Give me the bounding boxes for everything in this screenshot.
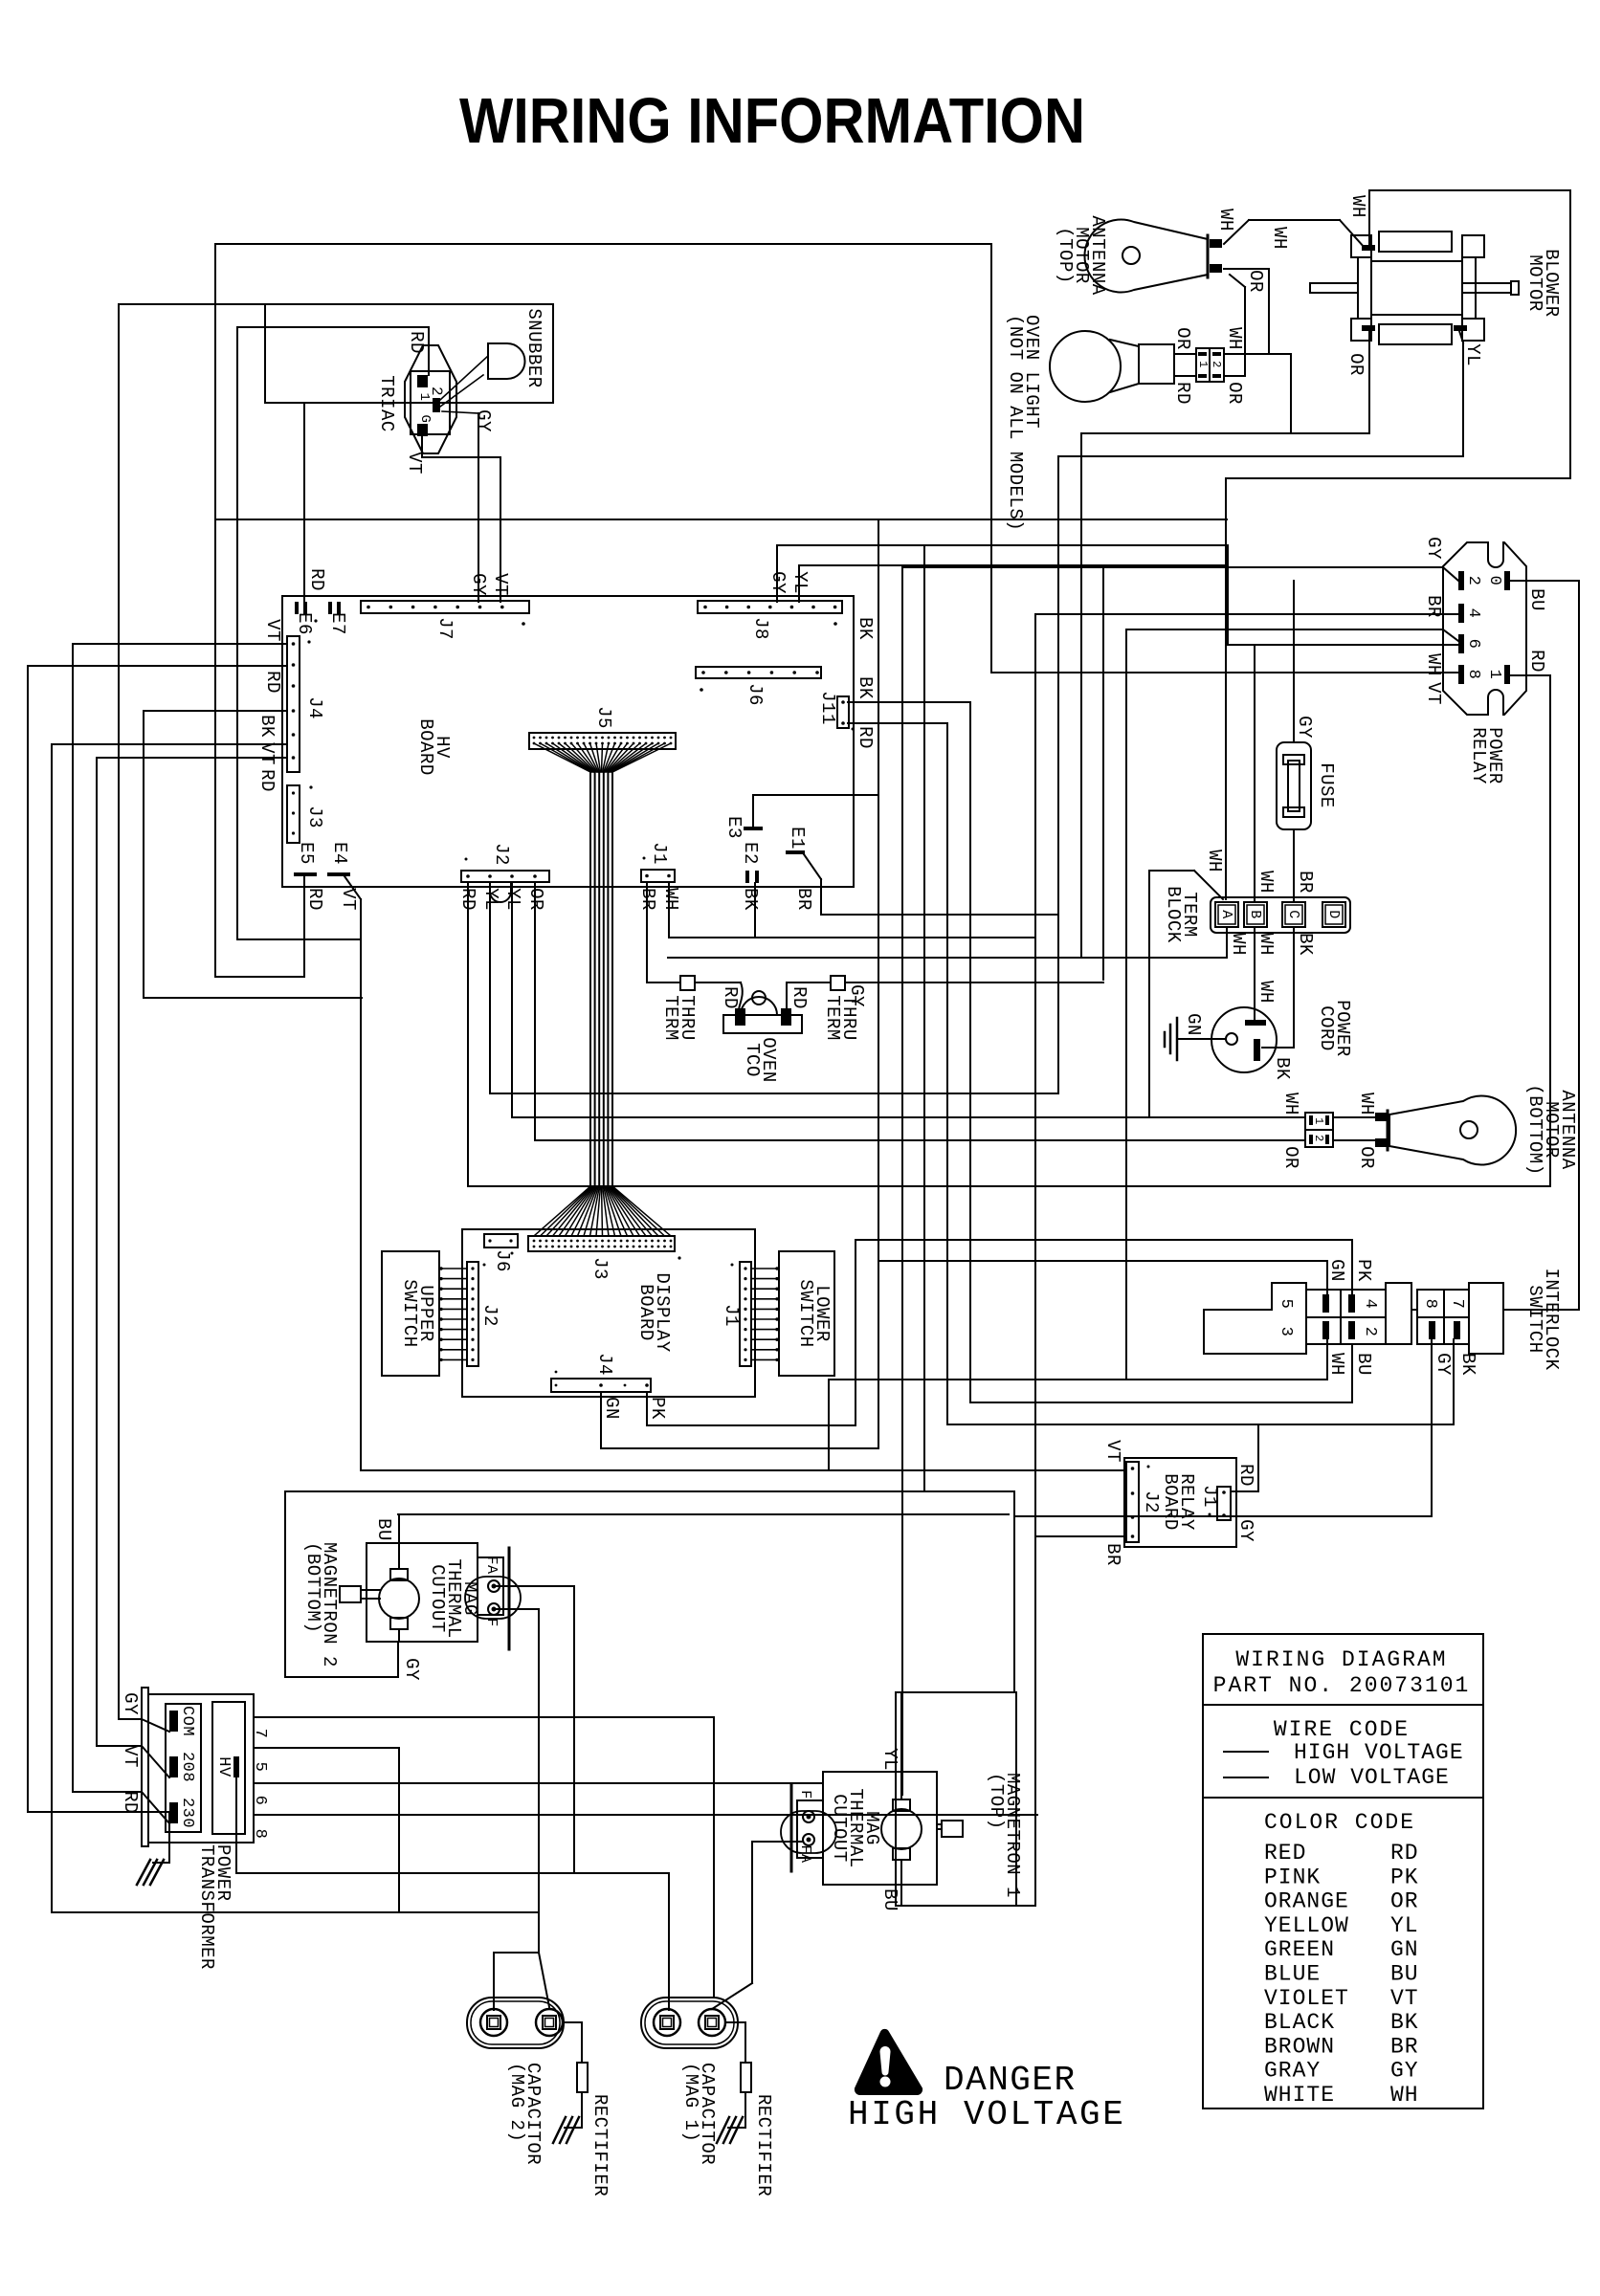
svg-text:CUTOUT: CUTOUT — [427, 1564, 448, 1632]
svg-text:GN: GN — [1183, 1013, 1204, 1036]
svg-text:VT: VT — [1102, 1440, 1123, 1463]
svg-text:BR: BR — [1102, 1543, 1123, 1566]
svg-text:OR: OR — [1224, 382, 1245, 405]
svg-text:E2: E2 — [740, 842, 761, 865]
svg-text:OR: OR — [1172, 327, 1193, 350]
svg-text:GY: GY — [767, 571, 789, 594]
svg-text:RD: RD — [720, 986, 741, 1009]
svg-text:GREEN: GREEN — [1264, 1937, 1335, 1962]
svg-text:BLUE: BLUE — [1264, 1962, 1321, 1987]
svg-text:RD: RD — [256, 769, 278, 792]
svg-text:TCO: TCO — [742, 1043, 763, 1077]
svg-text:FA: FA — [797, 1844, 813, 1863]
svg-text:OR: OR — [1390, 1889, 1419, 1914]
svg-text:RED: RED — [1264, 1841, 1306, 1865]
svg-text:PINK: PINK — [1264, 1865, 1321, 1889]
svg-text:(TOP): (TOP) — [1055, 227, 1076, 284]
svg-text:RD: RD — [306, 568, 327, 591]
svg-text:WH: WH — [1204, 850, 1225, 872]
svg-text:OR: OR — [1345, 353, 1367, 376]
svg-text:TERM: TERM — [822, 995, 843, 1041]
svg-text:PK: PK — [647, 1397, 668, 1420]
svg-text:J11: J11 — [817, 691, 838, 725]
svg-text:CORD: CORD — [1316, 1005, 1337, 1051]
svg-text:J5: J5 — [593, 706, 614, 729]
svg-text:BK: BK — [1272, 1057, 1293, 1080]
svg-text:BLOCK: BLOCK — [1163, 886, 1184, 943]
svg-text:2: 2 — [428, 386, 445, 396]
svg-text:J1: J1 — [721, 1304, 742, 1327]
svg-text:WIRING DIAGRAM: WIRING DIAGRAM — [1235, 1647, 1447, 1672]
svg-text:LOW VOLTAGE: LOW VOLTAGE — [1294, 1765, 1450, 1790]
svg-text:(BOTTOM): (BOTTOM) — [1524, 1084, 1545, 1175]
svg-text:J3: J3 — [589, 1257, 611, 1280]
svg-text:YL: YL — [789, 571, 811, 594]
svg-text:WH: WH — [1215, 209, 1236, 232]
svg-text:BK: BK — [1390, 2010, 1419, 2035]
svg-text:ORANGE: ORANGE — [1264, 1889, 1349, 1914]
svg-text:WHITE: WHITE — [1264, 2083, 1335, 2108]
svg-text:J4: J4 — [304, 696, 325, 719]
svg-text:BK: BK — [740, 888, 761, 911]
svg-text:J2: J2 — [479, 1304, 500, 1327]
svg-text:WH: WH — [1224, 327, 1245, 350]
svg-text:WH: WH — [1256, 871, 1277, 894]
svg-text:BOARD: BOARD — [1160, 1473, 1181, 1531]
svg-text:6: 6 — [1464, 639, 1482, 650]
svg-text:VT: VT — [120, 1745, 141, 1768]
svg-text:J8: J8 — [750, 617, 771, 640]
svg-text:GN: GN — [1326, 1259, 1347, 1282]
svg-text:E1: E1 — [787, 827, 808, 850]
svg-text:MOTOR: MOTOR — [1524, 254, 1545, 312]
svg-text:C: C — [1285, 910, 1301, 919]
svg-text:BOARD: BOARD — [415, 718, 436, 776]
svg-text:WH: WH — [1347, 195, 1368, 218]
svg-text:SWITCH: SWITCH — [795, 1279, 816, 1347]
svg-text:6: 6 — [251, 1796, 269, 1806]
svg-text:TRANSFORMER: TRANSFORMER — [196, 1844, 217, 1970]
svg-text:RD: RD — [406, 331, 427, 354]
svg-text:GRAY: GRAY — [1264, 2059, 1321, 2084]
svg-text:BK: BK — [1457, 1353, 1478, 1376]
svg-text:WH: WH — [1228, 933, 1249, 956]
svg-text:BU: BU — [1526, 588, 1547, 611]
svg-text:7: 7 — [1448, 1299, 1466, 1310]
svg-text:OR: OR — [1356, 1146, 1377, 1169]
svg-text:RD: RD — [1390, 1841, 1419, 1865]
svg-text:E5: E5 — [296, 842, 317, 865]
svg-text:WH: WH — [1326, 1353, 1347, 1376]
svg-text:PK: PK — [1390, 1865, 1419, 1889]
svg-text:D: D — [1325, 910, 1342, 919]
svg-text:E6: E6 — [294, 612, 315, 635]
svg-text:GY: GY — [846, 984, 867, 1007]
svg-text:1: 1 — [1196, 361, 1210, 368]
svg-text:BK: BK — [855, 617, 876, 640]
svg-text:BK: BK — [256, 715, 278, 738]
svg-text:(BOTTOM): (BOTTOM) — [302, 1542, 323, 1633]
svg-text:TERM: TERM — [660, 995, 681, 1041]
svg-text:E3: E3 — [723, 816, 744, 839]
svg-text:F: F — [797, 1790, 813, 1799]
svg-text:VT: VT — [490, 573, 511, 596]
svg-text:J3: J3 — [304, 806, 325, 828]
svg-text:VT: VT — [262, 619, 283, 642]
svg-text:HV: HV — [214, 1756, 233, 1777]
svg-text:3: 3 — [1277, 1327, 1295, 1337]
svg-text:OR: OR — [1245, 270, 1266, 293]
svg-text:E4: E4 — [329, 842, 350, 865]
svg-text:BK: BK — [855, 676, 876, 699]
svg-text:YL: YL — [1462, 343, 1483, 366]
svg-text:GN: GN — [1390, 1937, 1419, 1962]
svg-text:A: A — [1218, 910, 1234, 919]
svg-text:BROWN: BROWN — [1264, 2034, 1335, 2059]
svg-text:0: 0 — [1485, 576, 1503, 586]
svg-text:WH: WH — [660, 888, 681, 911]
svg-text:BOARD: BOARD — [635, 1284, 656, 1341]
svg-text:230: 230 — [178, 1798, 196, 1828]
svg-text:PK: PK — [1353, 1259, 1374, 1282]
svg-text:TRIAC: TRIAC — [376, 375, 397, 432]
svg-text:GY: GY — [1294, 716, 1315, 739]
svg-text:BU: BU — [1390, 1962, 1419, 1987]
svg-text:4: 4 — [1464, 608, 1482, 619]
svg-text:BK: BK — [1295, 933, 1316, 956]
svg-text:RD: RD — [304, 888, 325, 911]
svg-text:YL: YL — [1390, 1913, 1419, 1938]
svg-text:BU: BU — [1353, 1353, 1374, 1376]
svg-text:SWITCH: SWITCH — [399, 1279, 420, 1347]
svg-text:COM: COM — [178, 1706, 196, 1736]
svg-text:RD: RD — [789, 986, 810, 1009]
svg-text:SNUBBER: SNUBBER — [523, 308, 544, 387]
svg-text:8: 8 — [251, 1829, 269, 1840]
svg-text:GY: GY — [1235, 1519, 1256, 1542]
svg-text:E7: E7 — [327, 612, 348, 635]
svg-text:J4: J4 — [594, 1353, 615, 1376]
svg-text:5: 5 — [251, 1762, 269, 1773]
svg-text:5: 5 — [1277, 1299, 1295, 1310]
svg-text:(TOP): (TOP) — [986, 1773, 1007, 1830]
svg-text:GN: GN — [601, 1397, 622, 1420]
svg-text:208: 208 — [178, 1752, 196, 1782]
svg-text:YELLOW: YELLOW — [1264, 1913, 1349, 1938]
svg-text:WH: WH — [1256, 981, 1277, 1004]
svg-text:RD: RD — [1172, 382, 1193, 405]
svg-text:WIRING INFORMATION: WIRING INFORMATION — [459, 85, 1085, 157]
svg-text:VIOLET: VIOLET — [1264, 1986, 1349, 2011]
svg-text:GY: GY — [1390, 2059, 1419, 2084]
svg-text:BU: BU — [879, 1888, 900, 1911]
svg-text:RECTIFIER: RECTIFIER — [589, 2094, 611, 2197]
svg-text:(NOT ON ALL MODELS): (NOT ON ALL MODELS) — [1005, 315, 1026, 531]
svg-text:J1: J1 — [1199, 1485, 1220, 1508]
svg-text:GY: GY — [1423, 537, 1444, 560]
svg-text:WH: WH — [1390, 2083, 1419, 2108]
svg-text:RD: RD — [262, 671, 283, 694]
svg-text:WH: WH — [1256, 933, 1277, 956]
svg-text:OR: OR — [1280, 1146, 1301, 1169]
svg-text:J2: J2 — [1141, 1490, 1162, 1513]
svg-text:BR: BR — [1295, 871, 1316, 894]
svg-text:RD: RD — [120, 1791, 141, 1814]
svg-text:(MAG 1): (MAG 1) — [680, 2063, 701, 2142]
svg-text:1: 1 — [1485, 670, 1503, 680]
svg-text:RD: RD — [1235, 1464, 1256, 1487]
svg-text:BR: BR — [1390, 2034, 1419, 2059]
svg-text:FUSE: FUSE — [1316, 762, 1337, 808]
svg-text:G: G — [417, 415, 433, 424]
svg-text:4: 4 — [1361, 1299, 1379, 1310]
svg-text:BU: BU — [373, 1518, 394, 1541]
svg-text:7: 7 — [251, 1729, 269, 1739]
svg-text:GY: GY — [1433, 1353, 1454, 1376]
svg-text:VT: VT — [1390, 1986, 1419, 2011]
svg-text:1: 1 — [1312, 1117, 1325, 1125]
svg-text:RD: RD — [855, 726, 876, 749]
svg-text:GY: GY — [401, 1658, 422, 1681]
svg-text:J6: J6 — [492, 1249, 513, 1272]
svg-text:HIGH VOLTAGE: HIGH VOLTAGE — [1294, 1740, 1464, 1765]
svg-text:GY: GY — [120, 1692, 141, 1715]
svg-text:VT: VT — [256, 742, 278, 765]
svg-text:(MAG 2): (MAG 2) — [506, 2063, 527, 2142]
svg-text:VT: VT — [1423, 682, 1444, 705]
svg-text:WH: WH — [1356, 1093, 1377, 1115]
svg-text:F: F — [483, 1618, 500, 1627]
svg-text:RD: RD — [1526, 650, 1547, 673]
svg-text:DANGER: DANGER — [944, 2061, 1077, 2100]
svg-text:2: 2 — [1361, 1327, 1379, 1337]
svg-text:WIRE CODE: WIRE CODE — [1274, 1717, 1410, 1742]
svg-text:BR: BR — [793, 888, 814, 911]
svg-text:BLACK: BLACK — [1264, 2010, 1335, 2035]
svg-text:COLOR CODE: COLOR CODE — [1264, 1810, 1415, 1835]
svg-text:J1: J1 — [649, 842, 670, 865]
svg-text:2: 2 — [1210, 361, 1223, 368]
svg-text:FA: FA — [483, 1556, 500, 1574]
svg-text:J7: J7 — [434, 617, 456, 640]
svg-text:8: 8 — [1464, 670, 1482, 680]
svg-text:RECTIFIER: RECTIFIER — [753, 2094, 774, 2197]
svg-text:RELAY: RELAY — [1468, 727, 1489, 784]
svg-text:J6: J6 — [744, 683, 766, 706]
svg-text:PART NO. 20073101: PART NO. 20073101 — [1213, 1673, 1471, 1698]
svg-text:J2: J2 — [491, 843, 512, 866]
svg-text:YL: YL — [879, 1748, 900, 1771]
svg-text:8: 8 — [1421, 1299, 1439, 1310]
svg-text:CUTOUT: CUTOUT — [829, 1794, 850, 1862]
svg-text:SWITCH: SWITCH — [1524, 1285, 1545, 1353]
svg-text:2: 2 — [1464, 576, 1482, 586]
svg-text:WH: WH — [1280, 1093, 1301, 1115]
svg-text:GY: GY — [468, 573, 489, 596]
svg-text:2: 2 — [1312, 1135, 1325, 1142]
svg-text:B: B — [1247, 910, 1263, 919]
svg-text:WH: WH — [1269, 227, 1290, 250]
svg-text:HIGH VOLTAGE: HIGH VOLTAGE — [848, 2095, 1125, 2134]
